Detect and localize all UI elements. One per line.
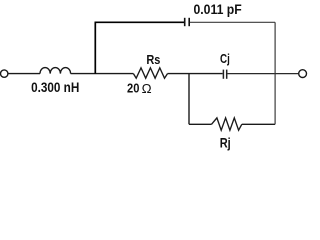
svg-text:0.300 nH: 0.300 nH: [31, 79, 79, 95]
svg-text:Cj: Cj: [220, 51, 230, 66]
svg-text:Rj: Rj: [220, 136, 231, 151]
terminal left port circle: [0, 70, 7, 77]
capacitor Cj plates: [223, 70, 226, 79]
node A vertical wire up to top branch: [94, 22, 96, 73]
wire top branch right: [190, 21, 275, 23]
right rail wire joining branches: [274, 22, 276, 124]
svg-text:Rs: Rs: [146, 52, 160, 67]
terminal right port circle: [299, 70, 307, 78]
wire Cj to right rail: [228, 73, 276, 75]
wire bottom branch left: [189, 123, 212, 125]
wire inductor to resistor Rs: [71, 73, 134, 75]
svg-text:0.011 pF: 0.011 pF: [194, 1, 242, 17]
svg-text:20: 20: [127, 80, 139, 95]
wire top branch left: [95, 21, 185, 23]
wire bottom branch right: [242, 123, 275, 125]
wire left port to inductor: [8, 73, 40, 75]
wire Rs to capacitor Cj: [168, 73, 223, 75]
node B vertical wire down to bottom branch: [188, 74, 190, 125]
resistor Rs zigzag: [133, 68, 167, 78]
resistor Rj zigzag: [212, 118, 242, 130]
wire right rail to right port: [275, 73, 299, 75]
capacitor Cp 0.011 pF plates: [185, 18, 190, 26]
svg-text:Ω: Ω: [142, 81, 152, 96]
inductor L 0.300 nH coil: [40, 68, 71, 74]
